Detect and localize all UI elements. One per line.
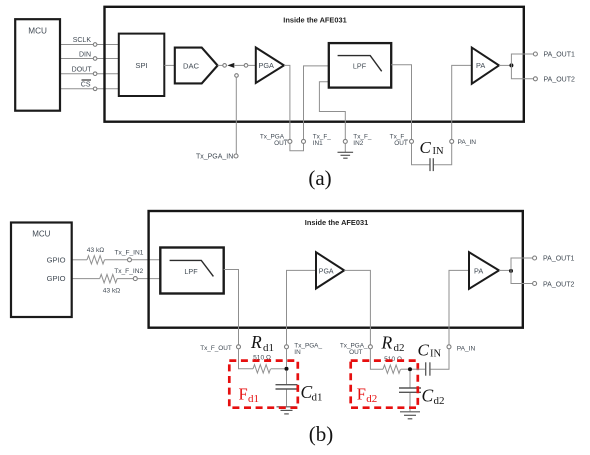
op-amp PA (b) bbox=[469, 252, 499, 289]
svg-text:PA_OUT2: PA_OUT2 bbox=[543, 281, 574, 288]
R_d2 label bbox=[381, 333, 405, 355]
ground F_d2 bbox=[400, 412, 420, 419]
pin circle DIN bbox=[93, 57, 97, 61]
svg-text:d1: d1 bbox=[248, 393, 259, 405]
svg-text:Tx_F_IN2: Tx_F_IN2 bbox=[114, 268, 143, 275]
C_d1 label bbox=[301, 382, 323, 404]
pin circle DOUT bbox=[93, 72, 97, 76]
wire DOUT bbox=[60, 73, 119, 75]
capacitor C_d1 wires bbox=[286, 371, 288, 407]
svg-text:CS: CS bbox=[81, 82, 91, 89]
wire capacitor C_IN to PA_IN pin (b) bbox=[430, 349, 449, 369]
switch wiper arrow bbox=[227, 63, 244, 68]
svg-text:C: C bbox=[422, 386, 434, 406]
PA_OUT1 pin circle (a) bbox=[533, 52, 537, 56]
Tx_F_IN2 label (b) bbox=[114, 268, 143, 275]
wire SCLK bbox=[60, 44, 119, 46]
wire LPF out to Tx_F_OUT bbox=[391, 65, 411, 140]
43 kOhm label #1 bbox=[87, 247, 104, 254]
junction dot PA out (a) bbox=[509, 63, 513, 67]
svg-text:SCLK: SCLK bbox=[73, 37, 92, 44]
svg-text:DOUT: DOUT bbox=[72, 66, 93, 73]
wire resistor Rd1 to junction bbox=[271, 368, 287, 370]
svg-text:IN: IN bbox=[433, 146, 444, 157]
wire to PA_OUT2 (b) bbox=[511, 271, 535, 284]
wire junction d2 to capacitor C_IN (b) bbox=[412, 368, 425, 370]
PA_OUT2 label (a) bbox=[544, 76, 575, 83]
GPIO label 1 bbox=[47, 255, 66, 264]
svg-text:d2: d2 bbox=[394, 342, 405, 354]
resistor 43k #1 bbox=[87, 256, 105, 264]
PA_IN pin circle (b) bbox=[447, 345, 451, 349]
svg-text:PA_OUT1: PA_OUT1 bbox=[543, 256, 574, 263]
external jumper Tx_PGA_OUT to Tx_F_IN1 bbox=[290, 143, 304, 150]
svg-text:C: C bbox=[420, 138, 432, 157]
svg-text:DAC: DAC bbox=[183, 61, 200, 70]
caption (a) bbox=[308, 166, 331, 190]
svg-text:Tx_PGA_IN: Tx_PGA_IN bbox=[196, 154, 233, 161]
svg-text:GPIO: GPIO bbox=[47, 255, 66, 264]
wire to PA_OUT1 (a) bbox=[511, 54, 535, 65]
Tx_PGA_IN label (b) bbox=[294, 342, 322, 356]
wire PGA out to Tx_PGA_OUT (b) bbox=[344, 270, 370, 344]
svg-text:DIN: DIN bbox=[79, 51, 91, 58]
svg-text:OUT: OUT bbox=[274, 140, 288, 147]
R_d2 value label 510 Ohm bbox=[384, 356, 402, 363]
Tx_PGA_IN pin circle bbox=[234, 154, 238, 158]
wire Tx_F_IN1 to LPF (b) bbox=[132, 259, 161, 261]
AFE031 enclosure box (a) bbox=[105, 7, 524, 122]
svg-text:d2: d2 bbox=[366, 393, 377, 405]
Tx_F_OUT label bbox=[390, 133, 409, 147]
capacitor C_IN (a) plates bbox=[430, 158, 433, 171]
Tx_PGA_OUT label bbox=[260, 133, 288, 147]
switch contact circle (Tx_PGA_IN side) bbox=[235, 74, 239, 78]
op-amp PGA (a) bbox=[256, 48, 284, 84]
wire PGA out to Tx_PGA_OUT bbox=[284, 65, 290, 139]
ground F_d1 bbox=[277, 407, 297, 414]
junction dot PA out (b) bbox=[509, 269, 513, 273]
caption (b) bbox=[309, 422, 334, 446]
wire PA_IN up to PA (b) bbox=[449, 270, 469, 344]
PA_OUT2 pin circle (b) bbox=[533, 282, 537, 286]
Tx_PGA_IN label bbox=[196, 154, 233, 161]
junction node d1 bbox=[285, 367, 289, 371]
svg-text:IN2: IN2 bbox=[353, 140, 363, 147]
PA_OUT2 label (b) bbox=[543, 281, 574, 288]
svg-text:d1: d1 bbox=[312, 392, 323, 404]
PA_OUT1 label (b) bbox=[543, 256, 574, 263]
svg-text:SPI: SPI bbox=[135, 61, 147, 70]
wire Tx_PGA_IN up into box to PGA bbox=[287, 270, 317, 344]
svg-text:PA: PA bbox=[476, 61, 485, 70]
F_d2 red dashed filter box bbox=[351, 361, 418, 408]
wire Tx_PGA_IN pin to junction bbox=[286, 349, 288, 367]
C_IN label (a) bbox=[420, 138, 444, 157]
Tx_PGA_OUT pin circle bbox=[288, 139, 292, 143]
wire switch to Tx_PGA_IN pin bbox=[235, 77, 237, 154]
switch contact circle (PGA side) bbox=[244, 64, 248, 68]
C_IN label (b) bbox=[418, 340, 442, 359]
wire Tx_F_IN1 to LPF input 1 bbox=[304, 66, 329, 139]
pin circle CS bbox=[93, 87, 97, 91]
capacitor C_IN (a) wires bbox=[412, 143, 452, 164]
F_d1 label bbox=[239, 385, 260, 406]
svg-text:R: R bbox=[250, 332, 262, 352]
svg-text:PGA: PGA bbox=[259, 61, 275, 70]
Tx_PGA_OUT label (b) bbox=[340, 342, 368, 356]
wire resistor2 to Tx_F_IN2 pin bbox=[117, 278, 133, 280]
Tx_F_IN1 pin circle (b) bbox=[128, 258, 132, 262]
MCU box (b) bbox=[11, 223, 72, 318]
svg-text:(b): (b) bbox=[309, 422, 334, 446]
LPF block (b) bbox=[160, 248, 223, 294]
svg-text:PA_OUT2: PA_OUT2 bbox=[544, 76, 575, 83]
svg-text:LPF: LPF bbox=[353, 62, 367, 71]
pin circle SCLK bbox=[93, 43, 97, 47]
svg-text:Inside the AFE031: Inside the AFE031 bbox=[283, 15, 346, 24]
Tx_F_OUT pin circle (b) bbox=[237, 345, 241, 349]
svg-text:F: F bbox=[357, 385, 366, 404]
wire GPIO2 bbox=[72, 278, 100, 280]
svg-text:Tx_F_OUT: Tx_F_OUT bbox=[200, 345, 232, 352]
Tx_F_IN1 label (b) bbox=[115, 250, 144, 257]
Tx_F_IN2 pin circle bbox=[343, 139, 347, 143]
switch contact circle (DAC side) bbox=[223, 64, 227, 68]
wire LPF input 2 bbox=[319, 82, 345, 140]
C_d2 label bbox=[422, 386, 445, 408]
svg-text:R: R bbox=[381, 333, 393, 353]
Tx_F_IN2 label bbox=[353, 133, 372, 147]
LPF block (a) bbox=[329, 43, 391, 88]
svg-text:PA_IN: PA_IN bbox=[458, 139, 477, 146]
resistor 43k #2 bbox=[100, 274, 118, 282]
svg-text:IN: IN bbox=[430, 349, 441, 360]
R_d1 label bbox=[250, 332, 274, 354]
wire DAC to switch bbox=[218, 64, 223, 66]
wire GPIO1 bbox=[72, 259, 87, 261]
SPI block bbox=[119, 34, 165, 96]
svg-text:PGA: PGA bbox=[319, 268, 334, 275]
wire LPF out to Tx_F_OUT (b) bbox=[224, 270, 239, 345]
svg-text:Inside the AFE031: Inside the AFE031 bbox=[305, 218, 368, 227]
capacitor C_d2 plates bbox=[399, 388, 421, 392]
DAC block bbox=[175, 48, 218, 84]
svg-text:MCU: MCU bbox=[28, 27, 47, 36]
PA_OUT1 label (a) bbox=[544, 52, 575, 59]
Tx_F_IN1 label bbox=[313, 133, 332, 147]
R_d1 value label 510 Ohm bbox=[253, 355, 271, 362]
svg-text:GPIO: GPIO bbox=[47, 274, 66, 283]
svg-text:PA_OUT1: PA_OUT1 bbox=[544, 52, 575, 59]
svg-text:(a): (a) bbox=[308, 166, 331, 190]
Tx_F_IN2 pin circle (b) bbox=[133, 277, 137, 281]
svg-text:MCU: MCU bbox=[32, 229, 50, 238]
op-amp PA (a) bbox=[472, 48, 499, 84]
pin DIN label bbox=[79, 51, 91, 58]
PA_IN pin circle (a) bbox=[450, 139, 454, 143]
svg-text:LPF: LPF bbox=[184, 267, 198, 276]
svg-text:C: C bbox=[418, 340, 430, 359]
wire resistor1 to Tx_F_IN1 pin bbox=[105, 259, 128, 261]
capacitor C_IN (b) plates bbox=[426, 362, 430, 375]
svg-text:43 kΩ: 43 kΩ bbox=[103, 287, 120, 294]
svg-text:IN: IN bbox=[294, 349, 301, 356]
capacitor C_d2 wires bbox=[409, 371, 411, 411]
junction node d2 bbox=[408, 367, 412, 371]
capacitor C_d1 plates bbox=[276, 385, 298, 389]
ground at Tx_F_IN2 bbox=[338, 143, 354, 158]
svg-text:OUT: OUT bbox=[394, 140, 408, 147]
43 kOhm label #2 bbox=[103, 287, 120, 294]
wire PA_IN to PA (a) bbox=[452, 65, 472, 139]
svg-text:IN1: IN1 bbox=[313, 140, 323, 147]
svg-text:43 kΩ: 43 kΩ bbox=[87, 247, 104, 254]
Tx_F_OUT label (b) bbox=[200, 345, 232, 352]
svg-text:d2: d2 bbox=[434, 395, 445, 407]
wire to PA_OUT2 (a) bbox=[511, 65, 535, 78]
svg-text:d1: d1 bbox=[263, 342, 274, 354]
GPIO label 2 bbox=[47, 274, 66, 283]
wire to PA_OUT1 (b) bbox=[511, 258, 535, 271]
PA_OUT2 pin circle (a) bbox=[533, 77, 537, 81]
AFE031 enclosure box (b) bbox=[149, 211, 523, 328]
svg-text:OUT: OUT bbox=[349, 349, 363, 356]
wire Tx_F_IN2 to LPF (b) bbox=[137, 278, 160, 280]
op-amp PGA (b) bbox=[316, 252, 344, 288]
wire Tx_F_OUT down to resistor Rd1 bbox=[239, 349, 254, 369]
MCU box (a) bbox=[15, 19, 60, 111]
wire SPI to DAC bbox=[164, 64, 175, 66]
PA_OUT1 pin circle (b) bbox=[533, 256, 537, 260]
pin DOUT label bbox=[72, 66, 93, 73]
wire PA out (a) bbox=[499, 64, 511, 66]
Tx_PGA_OUT pin circle (b) bbox=[368, 345, 372, 349]
wire CS bbox=[60, 88, 119, 90]
F_d1 red dashed filter box bbox=[229, 361, 297, 408]
resistor R_d1 510 ohm bbox=[253, 365, 270, 373]
Tx_PGA_IN pin circle (b) bbox=[285, 345, 289, 349]
pin CS label (with overline) bbox=[81, 80, 91, 89]
wire PA out (b) bbox=[499, 269, 511, 271]
PA_IN label (b) bbox=[457, 346, 476, 353]
wire resistor Rd2 to junction bbox=[401, 368, 410, 370]
wire DIN bbox=[60, 58, 119, 60]
wire switch to PGA bbox=[248, 64, 256, 66]
pin SCLK label bbox=[73, 37, 92, 44]
resistor R_d2 510 ohm bbox=[383, 365, 400, 373]
Tx_F_IN1 pin circle bbox=[302, 139, 306, 143]
svg-text:PA: PA bbox=[474, 266, 483, 275]
svg-text:F: F bbox=[239, 385, 248, 404]
F_d2 label bbox=[357, 385, 378, 406]
Tx_F_OUT pin circle bbox=[410, 139, 414, 143]
wire Tx_PGA_OUT down to resistor Rd2 bbox=[370, 349, 383, 369]
svg-text:PA_IN: PA_IN bbox=[457, 346, 476, 353]
svg-text:Tx_F_IN1: Tx_F_IN1 bbox=[115, 250, 144, 257]
PA_IN label (a) bbox=[458, 139, 477, 146]
